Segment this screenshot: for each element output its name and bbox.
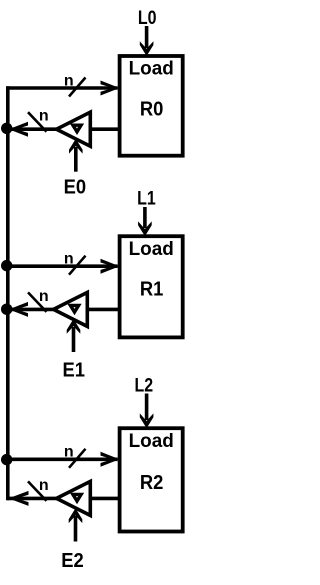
svg-text:Load: Load [129,239,174,260]
svg-text:Load: Load [129,431,174,452]
svg-text:Load: Load [129,58,174,79]
svg-text:E2: E2 [61,550,84,572]
svg-text:R1: R1 [140,279,164,301]
svg-text:n: n [39,288,49,305]
svg-text:E0: E0 [64,177,87,199]
svg-text:L1: L1 [137,187,156,209]
svg-text:n: n [64,444,74,461]
svg-text:n: n [64,251,74,268]
svg-text:E1: E1 [62,360,85,382]
svg-text:L2: L2 [134,374,153,396]
svg-text:R0: R0 [140,99,164,121]
svg-text:n: n [64,72,74,89]
svg-text:R2: R2 [140,472,164,494]
svg-text:L0: L0 [138,7,157,29]
svg-text:n: n [39,108,49,125]
svg-text:n: n [39,477,49,494]
